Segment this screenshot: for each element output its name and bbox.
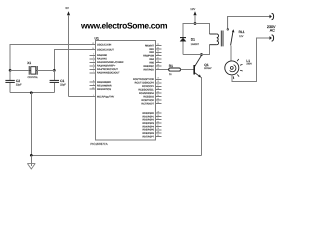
svg-text:1k: 1k — [169, 73, 172, 76]
relay RL1 coil — [210, 31, 224, 47]
svg-text:AC: AC — [270, 29, 275, 33]
svg-text:R1: R1 — [169, 64, 173, 68]
node crystal right junction — [53, 69, 56, 72]
svg-text:22pF: 22pF — [60, 84, 66, 87]
node collector junction — [200, 53, 203, 56]
relay RL1 contact — [227, 17, 245, 46]
svg-text:12V: 12V — [190, 7, 195, 11]
wire OSC1 to crystal left — [10, 45, 95, 71]
svg-text:OSC2/CLKOUT: OSC2/CLKOUT — [97, 48, 114, 51]
crystal X1 — [10, 61, 54, 79]
wire R1 to Q1 base — [181, 69, 194, 71]
node cap rail junction — [30, 91, 33, 94]
svg-text:CRYSTAL: CRYSTAL — [28, 76, 39, 79]
node crystal left junction — [9, 69, 12, 72]
resistor R1 — [169, 64, 181, 76]
svg-text:C2: C2 — [16, 79, 20, 83]
svg-text:BC547: BC547 — [204, 67, 212, 70]
transistor Q1 (BC547 NPN) — [194, 55, 212, 77]
wire 5V to MCLR — [69, 96, 96, 98]
terminal 230V AC top — [270, 13, 274, 19]
svg-text:22pF: 22pF — [16, 84, 22, 87]
svg-text:MCLR/Vpp/THV: MCLR/Vpp/THV — [97, 95, 115, 98]
wire crystal row — [10, 69, 54, 71]
diode D1 (1N4007) — [180, 38, 200, 46]
svg-text:RB7/PGD: RB7/PGD — [144, 68, 155, 71]
wire relay/diode loop — [183, 24, 210, 55]
node ground junction — [30, 154, 33, 157]
wire contact top to terminal — [228, 17, 270, 29]
node 12V junction — [194, 22, 197, 25]
svg-text:OSC1/CLKIN: OSC1/CLKIN — [97, 43, 111, 46]
svg-text:5V: 5V — [66, 6, 70, 10]
capacitor C1 — [50, 70, 67, 92]
wire OSC2 to crystal right — [54, 49, 95, 70]
svg-text:240V: 240V — [246, 63, 252, 66]
lamp L1 — [225, 59, 253, 79]
wire junction down to ground rail — [30, 93, 32, 156]
terminal 230V AC bottom — [270, 35, 274, 41]
svg-text:www.electroSome.com: www.electroSome.com — [80, 20, 168, 30]
microcontroller U1 (PIC16F877A) — [90, 36, 162, 146]
wire Q1 collector up — [201, 54, 203, 57]
capacitor C2 — [5, 70, 22, 92]
svg-text:PIC16F877A: PIC16F877A — [90, 142, 107, 146]
svg-text:RL1: RL1 — [239, 30, 245, 34]
ground — [27, 155, 35, 169]
svg-text:C1: C1 — [60, 79, 64, 83]
svg-text:RA5/AN4/SS/C2OUT: RA5/AN4/SS/C2OUT — [97, 72, 120, 75]
wire Q1 emitter to ground rail — [201, 77, 203, 155]
svg-text:RD7/PSP7: RD7/PSP7 — [142, 135, 154, 138]
power 5V arrow — [66, 6, 71, 97]
svg-text:RE2/AN7/CS: RE2/AN7/CS — [97, 88, 111, 91]
power 12V arrow — [190, 7, 196, 24]
svg-text:U1: U1 — [95, 36, 99, 40]
svg-text:RC7/RX/DT: RC7/RX/DT — [141, 103, 154, 106]
wire RB7 to R1 — [156, 69, 169, 71]
svg-text:12V: 12V — [239, 35, 244, 38]
wire lamp bottom to lower terminal — [232, 38, 270, 82]
wire contact bottom to lamp — [230, 45, 232, 61]
svg-text:D1: D1 — [191, 38, 195, 42]
svg-text:1N4007: 1N4007 — [191, 43, 200, 46]
wire ground rail — [31, 154, 201, 156]
wire capacitor bottom rail — [10, 92, 54, 94]
svg-text:X1: X1 — [27, 61, 31, 65]
